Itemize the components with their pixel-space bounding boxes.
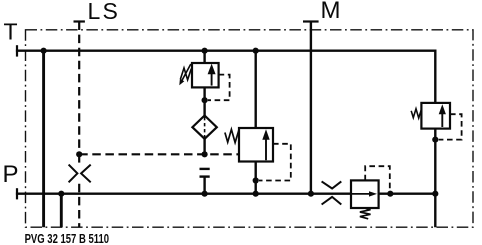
relief valve V1 pilot line (dashed) (208, 75, 230, 101)
svg-text:T: T (4, 19, 18, 45)
reducing valve V2 flow arrow (265, 139, 267, 160)
junction node P rail / P down-line (58, 191, 64, 197)
junction node V2 / P rail (253, 191, 259, 197)
wire T down-line to bottom edge (42, 51, 45, 228)
relief valve V1 adjustment arrow (182, 64, 191, 80)
wire LS vertical (dashed pilot line) (78, 22, 80, 154)
orifice O2 on P rail (bottom chevron) (322, 197, 342, 205)
junction node V2 pilot return (253, 177, 259, 183)
junction node V1 pilot return (202, 97, 208, 103)
junction node V3 line / P rail (432, 191, 438, 197)
plug X1 lower bar (200, 175, 210, 177)
wire V2 top stub from T rail (254, 51, 256, 128)
junction node plug / P rail (202, 191, 208, 197)
wire P rail (right part, valve V4 to right line) (379, 192, 436, 194)
svg-text:PVG 32 157 B 5110: PVG 32 157 B 5110 (25, 232, 110, 245)
junction node filter / LS branch (202, 151, 208, 157)
relief valve V3 body (421, 103, 450, 129)
port T tick (16, 45, 18, 56)
svg-text:M: M (321, 0, 341, 24)
bleed valve V4 flow arrow (352, 193, 370, 195)
junction node T rail / V2 stub (253, 48, 259, 54)
enclosure border (dash-dot module boundary) (26, 30, 474, 227)
wire P rail (left part, to valve V4) (16, 192, 351, 194)
relief valve V1 spring (adjustable) (180, 68, 191, 80)
reducing valve V2 pilot line (dashed) (259, 144, 291, 181)
junction node on T rail at T down-line (41, 48, 47, 54)
junction node LS / pilot branch (76, 151, 82, 157)
bleed valve V4 body (351, 180, 379, 208)
wire filter F1 to LS branch node (203, 139, 205, 155)
wire T rail (horizontal) (16, 50, 435, 52)
wire T rail corner down to valve V3 (434, 50, 436, 104)
junction node M / P rail (308, 191, 314, 197)
plug X1 upper bar (200, 168, 210, 170)
wire M vertical to P rail (310, 22, 312, 194)
port LS tick (74, 20, 85, 22)
orifice O1 on LS line (left chevron) (69, 165, 78, 183)
svg-text:P: P (3, 161, 19, 188)
port M tick (303, 20, 319, 22)
junction node T rail / V1 stub (202, 48, 208, 54)
filter F1 body (diamond) (192, 116, 216, 139)
filter F1 element (dashed centre line) (204, 117, 206, 138)
wire V2 bottom to P rail (254, 162, 256, 194)
wire V1 top stub from T rail (203, 51, 205, 63)
relief valve V1 flow arrow (211, 73, 213, 86)
wire V1 bottom to filter F1 (203, 87, 205, 116)
relief valve V3 spring (411, 109, 421, 118)
orifice O1 on LS line (right chevron) (81, 165, 91, 183)
reducing valve V2 spring (225, 129, 239, 142)
orifice O2 on P rail (top chevron) (322, 181, 342, 188)
bleed valve V4 spring (bottom) (360, 208, 371, 219)
port P tick (16, 188, 18, 199)
junction node V4 outlet / P rail (387, 191, 393, 197)
svg-text:LS: LS (88, 0, 121, 24)
wire V3 bottom to P rail and bottom edge (434, 129, 436, 228)
reducing valve V2 body (239, 128, 273, 162)
junction node V3 pilot return (432, 137, 438, 143)
wire LS pilot branch to valve V2 (dashed horizontal) (79, 153, 239, 155)
wire plug X1 stem to P rail (203, 177, 205, 194)
bleed valve V4 pilot line (dashed) (365, 166, 390, 194)
relief valve V3 flow arrow (441, 114, 443, 128)
wire P down-line to bottom edge (60, 194, 63, 228)
relief valve V1 body (192, 63, 219, 87)
relief valve V3 pilot line (dashed) (439, 114, 462, 139)
